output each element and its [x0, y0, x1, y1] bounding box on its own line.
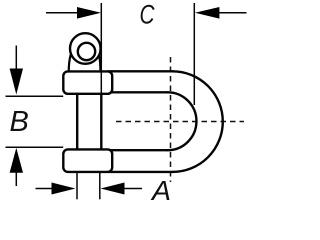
svg-text:B: B	[10, 106, 29, 138]
svg-text:A: A	[150, 175, 171, 205]
svg-text:C: C	[140, 0, 155, 30]
